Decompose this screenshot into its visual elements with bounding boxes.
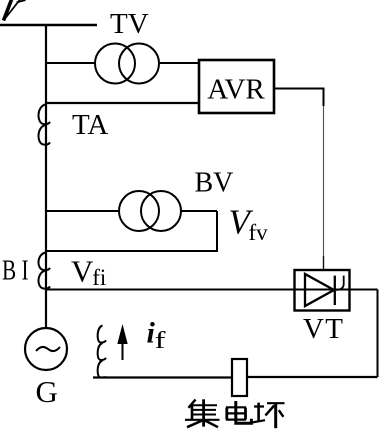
- svg-text:V: V: [71, 254, 94, 289]
- wire TV primary to AVR: [45, 62, 199, 64]
- field winding inductor: [98, 326, 106, 378]
- wire AVR output to VT gate: [274, 89, 324, 271]
- svg-text:fv: fv: [249, 220, 269, 245]
- wire top bus: [0, 24, 97, 26]
- thyristor VT: [295, 270, 350, 311]
- label TA: [72, 109, 108, 141]
- node V bus voltage label: [4, 0, 26, 21]
- svg-text:TV: TV: [110, 8, 149, 40]
- box AVR: [199, 60, 274, 113]
- wire field circuit bottom right: [247, 376, 378, 378]
- wire TA measurement line to AVR: [45, 102, 199, 104]
- svg-text:f: f: [155, 328, 166, 354]
- wire generator bus vertical: [45, 24, 47, 328]
- svg-text:G: G: [36, 374, 58, 409]
- label V_fv: [229, 203, 269, 246]
- wire V_fi thyristor anode line: [45, 289, 378, 291]
- label TV: [110, 8, 149, 40]
- label i_f: [147, 317, 166, 355]
- transformer BV: [119, 191, 181, 231]
- label BI: [2, 255, 29, 287]
- svg-text:AVR: AVR: [207, 74, 265, 106]
- svg-text:fi: fi: [92, 265, 106, 290]
- wire VT output right side down: [377, 290, 379, 378]
- label BV: [195, 168, 234, 199]
- svg-text:BV: BV: [195, 168, 234, 199]
- slip ring box: [232, 359, 247, 396]
- svg-text:B I: B I: [2, 255, 29, 287]
- current arrow i_f: [117, 324, 127, 360]
- transformer TV: [95, 44, 159, 84]
- label 集电环 slip ring (hand drawn glyphs): [185, 399, 285, 428]
- label V_fi: [71, 254, 106, 291]
- generator G: [25, 328, 67, 409]
- label VT: [303, 313, 343, 345]
- current transformer TA winding: [38, 105, 50, 145]
- current transformer BI winding: [38, 253, 50, 289]
- wire V_fv loop: [45, 211, 217, 251]
- wire BV primary: [45, 210, 217, 212]
- svg-text:VT: VT: [303, 313, 343, 345]
- wire field circuit bottom left: [93, 376, 232, 378]
- svg-text:TA: TA: [72, 109, 108, 141]
